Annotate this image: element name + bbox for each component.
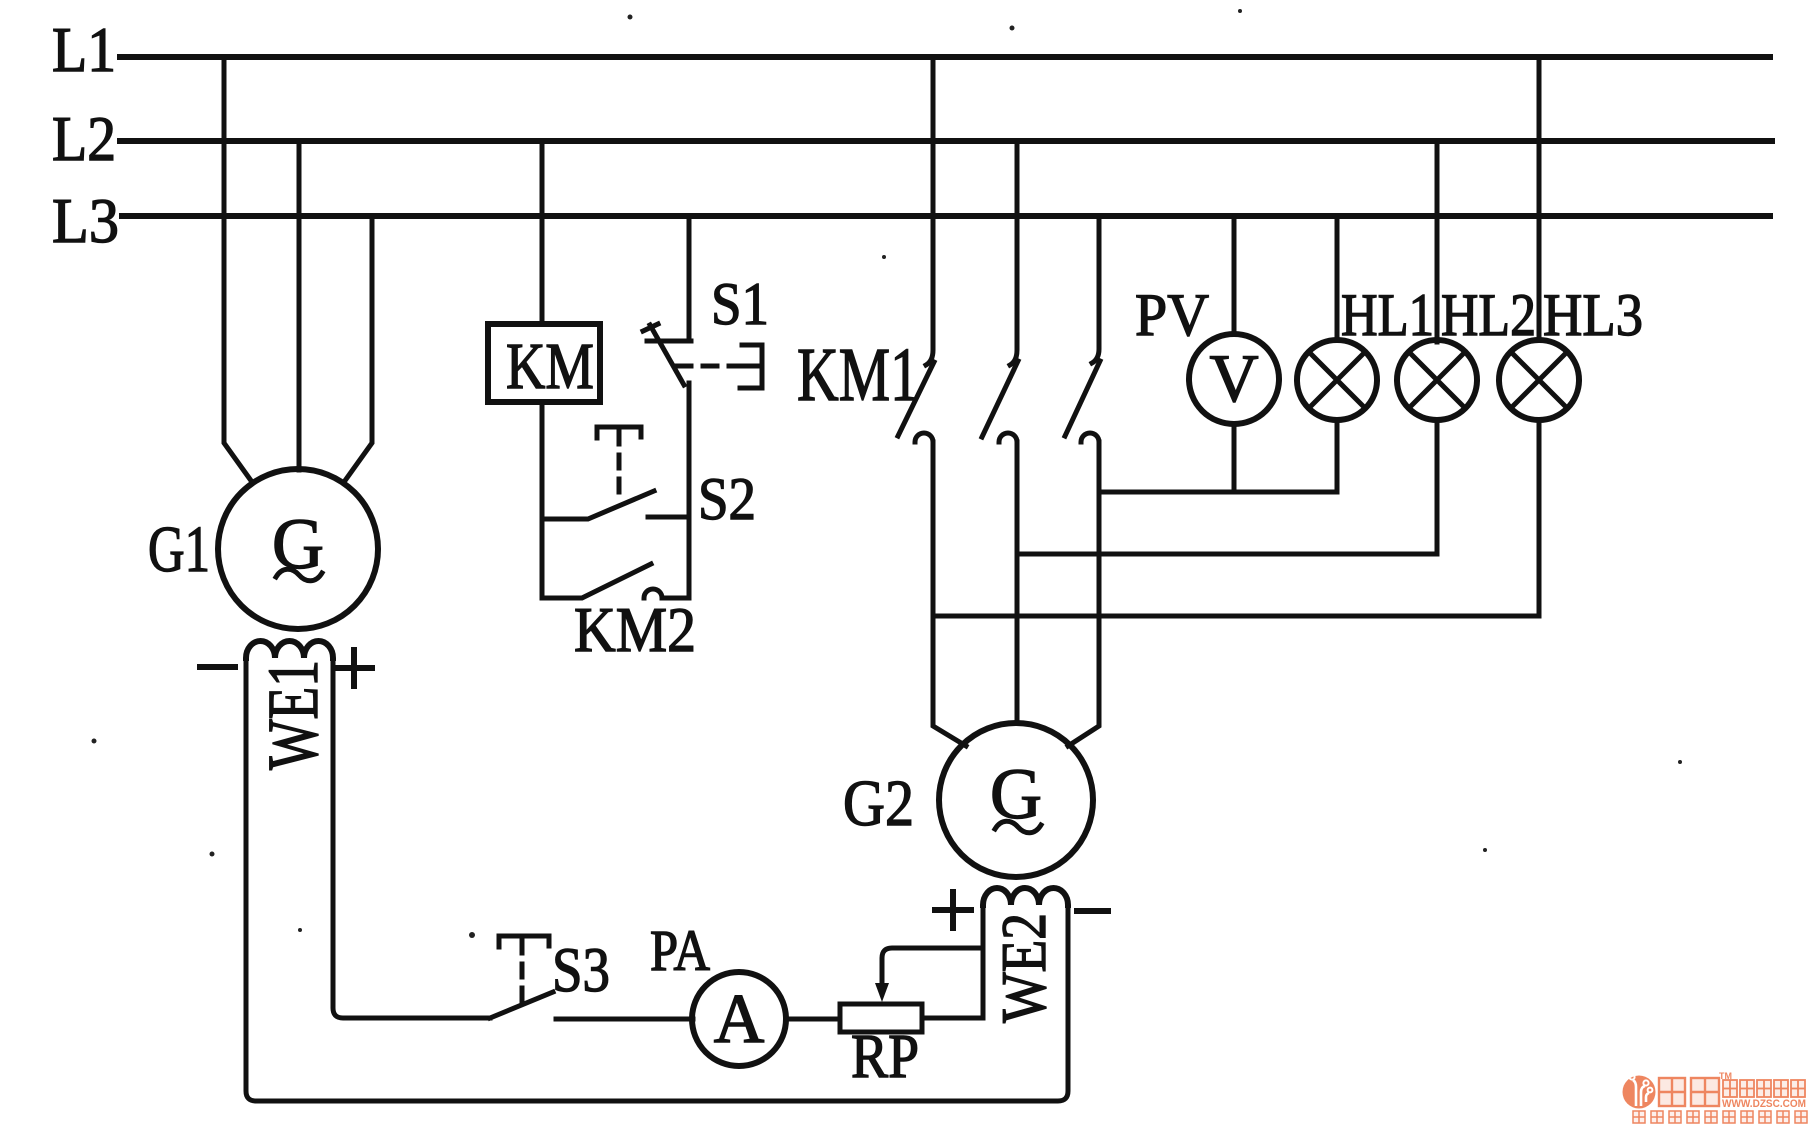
voltmeter PV (1135, 216, 1279, 492)
svg-text:PA: PA (650, 918, 710, 983)
svg-text:WWW.DZSC.COM: WWW.DZSC.COM (1722, 1098, 1806, 1110)
wire L2 to G1 (297, 141, 302, 470)
svg-text:L2: L2 (52, 103, 116, 174)
rheostat RP (840, 1004, 922, 1091)
field winding WE1 (200, 641, 372, 770)
bus L3 (52, 185, 1770, 256)
wire S1 down to S2/KM2 (687, 383, 692, 598)
node pole1 to lamps row 3 (933, 614, 1539, 619)
svg-text:S2: S2 (698, 466, 756, 532)
switch S3 (490, 934, 610, 1018)
generator G1 (148, 469, 378, 629)
svg-text:KM2: KM2 (574, 594, 696, 665)
svg-text:S3: S3 (552, 934, 610, 1005)
wire KM coil down (540, 402, 545, 598)
wire RP to WE2 plus (922, 905, 983, 1018)
svg-text:A: A (714, 981, 765, 1058)
svg-text:KM: KM (506, 330, 594, 403)
watermark text dianzi shichang wang (1723, 1080, 1805, 1097)
wire WE1 plus down to S3 (333, 658, 490, 1018)
contact KM1 pole 2 (982, 141, 1018, 723)
scan specks (92, 9, 1683, 938)
svg-text:V: V (1209, 340, 1258, 416)
contact KM1 pole 1 (898, 57, 966, 746)
lamp HL1 (1297, 216, 1434, 492)
bus L1 (52, 14, 1770, 85)
svg-text:WE1: WE1 (253, 660, 333, 770)
switch S2 (542, 427, 756, 532)
ammeter PA (650, 918, 786, 1066)
svg-text:RP: RP (851, 1023, 919, 1091)
RP wiper arrow (875, 948, 983, 1002)
svg-text:G2: G2 (843, 767, 914, 840)
svg-text:L1: L1 (52, 14, 116, 85)
svg-text:L3: L3 (52, 185, 119, 256)
wire L3 to G1 (344, 216, 372, 482)
contactor coil KM (488, 324, 600, 403)
wire WE1 minus to bottom run to WE2 minus (246, 658, 1068, 1101)
wire PA to RP (786, 1017, 840, 1022)
svg-text:WE2: WE2 (988, 913, 1059, 1023)
contact KM1 pole 3 (1065, 216, 1100, 746)
watermark logo (1623, 1074, 1656, 1108)
svg-text:S1: S1 (711, 271, 769, 337)
wire S3 to PA (556, 1017, 693, 1022)
svg-text:HL3: HL3 (1543, 282, 1643, 348)
switch S1 (643, 216, 769, 385)
field winding WE2 (935, 888, 1108, 1023)
svg-text:KM1: KM1 (797, 333, 919, 417)
contactor coil KM wire from L2 (540, 141, 545, 324)
generator G2 (843, 723, 1093, 877)
svg-text:HL1: HL1 (1341, 282, 1434, 348)
watermark tagline (1633, 1111, 1807, 1123)
svg-text:G1: G1 (148, 513, 210, 586)
svg-text:PV: PV (1135, 282, 1209, 348)
svg-text:HL2: HL2 (1441, 282, 1536, 348)
wire L1 to G1 (224, 57, 252, 482)
node pole2 to lamps row 2 (1017, 552, 1437, 557)
lamp HL3 (1499, 57, 1643, 616)
mechanical link S1-KM1 (677, 345, 762, 388)
watermark text weiku (1659, 1078, 1719, 1106)
contact KM2 (542, 564, 696, 665)
node pole3 to lamps row 1 (1099, 490, 1337, 495)
lamp HL2 (1397, 141, 1536, 554)
bus L2 (52, 103, 1772, 174)
